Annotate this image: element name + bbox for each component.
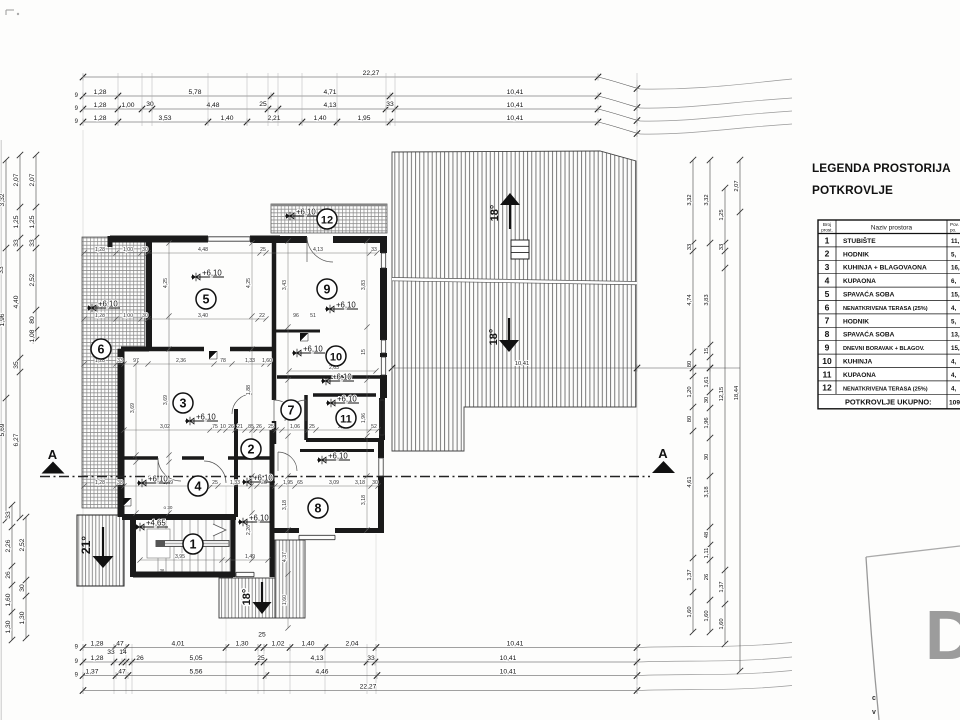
svg-text:48: 48 <box>704 532 710 538</box>
svg-text:25: 25 <box>257 655 265 662</box>
svg-text:3,18: 3,18 <box>361 495 367 505</box>
svg-text:1,95: 1,95 <box>357 115 370 122</box>
svg-text:33: 33 <box>687 244 693 250</box>
svg-text:4,71: 4,71 <box>323 89 336 96</box>
svg-text:1,60: 1,60 <box>687 606 693 617</box>
svg-text:1,25: 1,25 <box>719 209 725 220</box>
svg-text:KUHINJA: KUHINJA <box>843 359 873 366</box>
svg-text:75: 75 <box>212 424 218 430</box>
svg-text:1,37: 1,37 <box>85 668 98 675</box>
svg-text:4,: 4, <box>951 305 956 312</box>
svg-text:1,28: 1,28 <box>90 640 103 647</box>
svg-text:5,: 5, <box>951 251 956 258</box>
svg-text:1,00: 1,00 <box>121 102 134 109</box>
svg-text:33: 33 <box>5 511 12 519</box>
svg-text:+6,10: +6,10 <box>332 372 352 381</box>
svg-text:30: 30 <box>146 101 154 108</box>
svg-text:8: 8 <box>825 329 830 339</box>
svg-text:2,26: 2,26 <box>246 525 252 535</box>
svg-text:2,52: 2,52 <box>19 538 26 551</box>
svg-text:4: 4 <box>825 276 830 286</box>
svg-text:10,41: 10,41 <box>515 361 530 367</box>
svg-text:1,30: 1,30 <box>19 611 26 624</box>
svg-text:13,: 13, <box>951 332 960 339</box>
svg-text:26: 26 <box>228 424 234 430</box>
svg-text:4,48: 4,48 <box>206 102 219 109</box>
svg-text:33: 33 <box>371 247 377 253</box>
svg-text:52: 52 <box>371 424 377 430</box>
svg-text:26: 26 <box>5 571 12 579</box>
svg-text:2,36: 2,36 <box>176 358 186 364</box>
svg-text:12: 12 <box>822 383 832 393</box>
svg-text:4,46: 4,46 <box>315 668 328 675</box>
svg-text:33: 33 <box>29 239 36 247</box>
svg-text:+6,10: +6,10 <box>303 344 323 353</box>
svg-text:97: 97 <box>133 358 139 364</box>
svg-text:15,: 15, <box>951 345 960 352</box>
svg-text:3,43: 3,43 <box>282 280 288 290</box>
svg-text:2: 2 <box>825 249 830 259</box>
svg-text:25: 25 <box>259 101 267 108</box>
svg-text:+6,10: +6,10 <box>249 513 269 522</box>
svg-text:18,44: 18,44 <box>734 385 740 400</box>
svg-text:SPAVAĆA SOBA: SPAVAĆA SOBA <box>843 330 895 339</box>
svg-text:5: 5 <box>203 292 210 306</box>
svg-text:65: 65 <box>297 480 303 486</box>
svg-text:33: 33 <box>719 244 725 250</box>
svg-text:4,: 4, <box>951 372 956 379</box>
svg-text:3,40: 3,40 <box>198 313 208 319</box>
svg-text:5,78: 5,78 <box>188 89 201 96</box>
svg-text:4,40: 4,40 <box>13 295 20 308</box>
svg-text:+6,10: +6,10 <box>98 299 118 308</box>
svg-text:2,07: 2,07 <box>29 173 36 186</box>
svg-text:9: 9 <box>324 282 331 296</box>
svg-text:o 30: o 30 <box>164 505 173 510</box>
svg-text:4,13: 4,13 <box>313 247 323 253</box>
svg-text:4,25: 4,25 <box>246 278 252 288</box>
svg-text:12: 12 <box>321 214 333 226</box>
svg-text:1,60: 1,60 <box>719 618 725 629</box>
svg-text:5: 5 <box>825 289 830 299</box>
svg-text:3,02: 3,02 <box>160 424 170 430</box>
svg-text:+6,10: +6,10 <box>253 473 273 482</box>
svg-text:1,25: 1,25 <box>29 215 36 228</box>
svg-text:3,32: 3,32 <box>0 193 6 206</box>
svg-text:26: 26 <box>704 574 710 580</box>
svg-text:POTKROVLJE: POTKROVLJE <box>812 183 893 197</box>
svg-text:3,18: 3,18 <box>355 480 365 486</box>
svg-text:3,69: 3,69 <box>163 395 169 405</box>
svg-text:3,95: 3,95 <box>175 554 185 560</box>
svg-text:4,: 4, <box>951 385 956 392</box>
svg-text:3,18: 3,18 <box>704 486 710 497</box>
svg-text:21°: 21° <box>79 536 93 554</box>
svg-text:2,52: 2,52 <box>29 273 36 286</box>
svg-text:96: 96 <box>293 313 299 319</box>
svg-text:25: 25 <box>268 424 274 430</box>
svg-text:16,: 16, <box>951 265 960 272</box>
svg-text:21: 21 <box>237 424 243 430</box>
svg-text:4: 4 <box>195 479 202 493</box>
svg-text:+4,65: +4,65 <box>146 518 166 527</box>
svg-text:1,28: 1,28 <box>93 89 106 96</box>
svg-text:1,33: 1,33 <box>230 480 240 486</box>
svg-text:1,30: 1,30 <box>5 620 12 633</box>
svg-text:11: 11 <box>340 413 352 425</box>
svg-text:26: 26 <box>256 424 262 430</box>
svg-text:1,60: 1,60 <box>704 610 710 621</box>
svg-text:2,21: 2,21 <box>267 115 280 122</box>
svg-text:33: 33 <box>367 655 375 662</box>
svg-text:1,33: 1,33 <box>245 358 255 364</box>
svg-text:30: 30 <box>372 480 378 486</box>
svg-text:1,96: 1,96 <box>704 417 710 428</box>
svg-text:1,40: 1,40 <box>301 640 314 647</box>
svg-text:+6,10: +6,10 <box>196 412 216 421</box>
svg-text:1,37: 1,37 <box>719 581 725 592</box>
svg-text:18°: 18° <box>241 589 253 606</box>
svg-text:1,28: 1,28 <box>90 655 103 662</box>
svg-text:33: 33 <box>13 239 20 247</box>
svg-text:5,05: 5,05 <box>189 655 202 662</box>
svg-text:10,41: 10,41 <box>500 655 517 662</box>
svg-text:+6,10: +6,10 <box>336 300 356 309</box>
svg-text:4,13: 4,13 <box>310 655 323 662</box>
svg-text:1,37: 1,37 <box>687 569 693 580</box>
svg-text:15: 15 <box>361 349 367 355</box>
svg-text:3,32: 3,32 <box>704 194 710 205</box>
svg-text:33: 33 <box>386 101 394 108</box>
svg-text:6,27: 6,27 <box>13 433 20 446</box>
svg-text:30: 30 <box>704 397 710 403</box>
svg-text:NENATKRIVENA TERASA (25%): NENATKRIVENA TERASA (25%) <box>843 306 928 312</box>
svg-text:2,26: 2,26 <box>5 539 12 552</box>
svg-text:po.: po. <box>950 228 956 233</box>
svg-text:2: 2 <box>248 442 255 456</box>
svg-text:1,25: 1,25 <box>13 215 20 228</box>
svg-text:7: 7 <box>825 316 830 326</box>
svg-text:KUPAONA: KUPAONA <box>843 372 876 379</box>
svg-text:1: 1 <box>190 537 197 551</box>
svg-text:15: 15 <box>704 348 710 354</box>
svg-text:78: 78 <box>220 358 226 364</box>
svg-text:3,53: 3,53 <box>158 115 171 122</box>
svg-text:1,28: 1,28 <box>95 247 105 253</box>
svg-text:12,15: 12,15 <box>719 387 725 402</box>
svg-text:109: 109 <box>949 399 960 406</box>
svg-text:1,60: 1,60 <box>262 358 272 364</box>
svg-text:+6,10: +6,10 <box>148 474 168 483</box>
svg-text:4,74: 4,74 <box>687 294 693 306</box>
svg-text:1,06: 1,06 <box>290 424 300 430</box>
svg-text:10: 10 <box>330 351 342 363</box>
svg-text:Naziv prostora: Naziv prostora <box>871 225 913 232</box>
svg-text:8: 8 <box>315 501 322 515</box>
svg-text:c: c <box>872 695 876 702</box>
svg-text:Broj: Broj <box>823 222 831 227</box>
svg-text:+6,10: +6,10 <box>296 207 316 216</box>
svg-text:A: A <box>658 446 668 461</box>
svg-text:1,20: 1,20 <box>687 386 693 397</box>
svg-text:10,41: 10,41 <box>500 668 517 675</box>
svg-text:51: 51 <box>310 313 316 319</box>
svg-text:3,83: 3,83 <box>704 294 710 305</box>
svg-text:10: 10 <box>822 356 832 366</box>
svg-text:30: 30 <box>142 313 148 319</box>
svg-text:25: 25 <box>258 631 266 638</box>
svg-text:47: 47 <box>118 668 126 675</box>
svg-text:10,41: 10,41 <box>507 102 524 109</box>
svg-text:1,96: 1,96 <box>0 313 6 326</box>
svg-text:3,69: 3,69 <box>130 403 136 413</box>
svg-text:1,02: 1,02 <box>271 640 284 647</box>
svg-text:KUHINJA + BLAGOVAONA: KUHINJA + BLAGOVAONA <box>843 265 927 272</box>
svg-text:4,61: 4,61 <box>687 476 693 487</box>
svg-text:5,56: 5,56 <box>189 668 202 675</box>
svg-text:26: 26 <box>136 655 144 662</box>
svg-text:DNEVNI BORAVAK + BLAGOV.: DNEVNI BORAVAK + BLAGOV. <box>843 346 925 352</box>
svg-text:NENATKRIVENA TERASA (25%): NENATKRIVENA TERASA (25%) <box>843 386 928 392</box>
svg-text:25: 25 <box>260 247 266 253</box>
svg-text:HODNIK: HODNIK <box>843 251 869 258</box>
svg-text:1,88: 1,88 <box>246 385 252 395</box>
svg-text:LEGENDA PROSTORIJA: LEGENDA PROSTORIJA <box>812 161 951 175</box>
svg-text:80: 80 <box>29 316 36 324</box>
svg-text:3: 3 <box>825 262 830 272</box>
svg-text:1,28: 1,28 <box>93 115 106 122</box>
svg-text:25: 25 <box>309 424 315 430</box>
svg-text:4,01: 4,01 <box>171 640 184 647</box>
svg-text:D: D <box>925 596 960 674</box>
svg-text:25: 25 <box>212 480 218 486</box>
svg-text:3,83: 3,83 <box>361 280 367 290</box>
svg-text:1,49: 1,49 <box>245 554 255 560</box>
svg-text:1,11: 1,11 <box>704 548 710 559</box>
svg-text:1,00: 1,00 <box>123 313 133 319</box>
svg-text:30: 30 <box>19 584 26 592</box>
svg-text:30: 30 <box>704 454 710 460</box>
svg-text:1,40: 1,40 <box>313 115 326 122</box>
svg-text:HODNIK: HODNIK <box>843 318 869 325</box>
svg-text:prost.: prost. <box>821 228 833 233</box>
svg-text:1,28: 1,28 <box>95 313 105 319</box>
svg-text:POTKROVLJE UKUPNO:: POTKROVLJE UKUPNO: <box>845 397 932 406</box>
svg-text:47: 47 <box>116 640 124 647</box>
svg-text:1,30: 1,30 <box>235 640 248 647</box>
svg-text:80: 80 <box>687 361 693 367</box>
svg-text:22: 22 <box>259 313 265 319</box>
svg-text:6,: 6, <box>951 278 956 285</box>
svg-text:4,37: 4,37 <box>282 552 288 562</box>
svg-text:4,: 4, <box>951 359 956 366</box>
svg-text:1,96: 1,96 <box>361 413 367 423</box>
svg-text:10,41: 10,41 <box>507 115 524 122</box>
svg-text:6: 6 <box>98 342 105 356</box>
svg-text:7: 7 <box>288 403 295 417</box>
svg-text:SPAVAĆA SOBA: SPAVAĆA SOBA <box>843 290 895 299</box>
svg-text:22,27: 22,27 <box>360 683 377 690</box>
svg-text:35: 35 <box>13 361 20 369</box>
svg-text:6: 6 <box>825 302 830 312</box>
svg-text:5,: 5, <box>951 318 956 325</box>
svg-text:v: v <box>872 709 876 716</box>
svg-text:4,13: 4,13 <box>323 102 336 109</box>
svg-text:1,00: 1,00 <box>123 247 133 253</box>
svg-text:33: 33 <box>0 266 5 274</box>
svg-text:3: 3 <box>180 396 187 410</box>
svg-text:Pov.: Pov. <box>950 222 959 227</box>
svg-text:11,: 11, <box>951 238 960 245</box>
svg-text:A: A <box>48 447 58 462</box>
svg-text:5,69: 5,69 <box>0 423 6 436</box>
svg-text:1,08: 1,08 <box>29 329 36 342</box>
svg-text:1,28: 1,28 <box>95 480 105 486</box>
svg-text:2,07: 2,07 <box>734 180 740 191</box>
svg-text:1: 1 <box>825 235 830 245</box>
svg-text:4,48: 4,48 <box>198 247 208 253</box>
svg-text:22,27: 22,27 <box>363 70 380 77</box>
svg-text:1,40: 1,40 <box>220 115 233 122</box>
svg-text:1,28: 1,28 <box>93 102 106 109</box>
svg-text:+6,10: +6,10 <box>202 268 222 277</box>
svg-text:11: 11 <box>823 369 832 379</box>
svg-text:38: 38 <box>117 480 123 486</box>
svg-text:15,: 15, <box>951 292 960 299</box>
svg-text:1,61: 1,61 <box>704 376 710 387</box>
svg-text:14: 14 <box>119 649 127 656</box>
svg-text:2,04: 2,04 <box>345 640 358 647</box>
svg-text:1,60: 1,60 <box>5 593 12 606</box>
svg-text:10,41: 10,41 <box>507 640 524 647</box>
svg-text:4,25: 4,25 <box>163 278 169 288</box>
svg-text:18°: 18° <box>489 205 501 222</box>
svg-text:30: 30 <box>142 247 148 253</box>
svg-text:10: 10 <box>220 424 226 430</box>
svg-text:80: 80 <box>687 416 693 422</box>
svg-text:33: 33 <box>117 358 123 364</box>
svg-text:3,09: 3,09 <box>329 480 339 486</box>
svg-text:18°: 18° <box>488 329 500 346</box>
svg-text:2,07: 2,07 <box>13 173 20 186</box>
svg-text:+6,10: +6,10 <box>328 451 348 460</box>
svg-text:3,32: 3,32 <box>687 194 693 205</box>
svg-text:1,60: 1,60 <box>282 595 288 605</box>
svg-text:STUBIŠTE: STUBIŠTE <box>843 236 876 245</box>
svg-text:9: 9 <box>825 343 830 353</box>
svg-text:3,18: 3,18 <box>282 500 288 510</box>
svg-text:10,41: 10,41 <box>507 89 524 96</box>
svg-text:+6,10: +6,10 <box>337 394 357 403</box>
svg-text:33: 33 <box>107 649 115 656</box>
svg-text:KUPAONA: KUPAONA <box>843 278 876 285</box>
